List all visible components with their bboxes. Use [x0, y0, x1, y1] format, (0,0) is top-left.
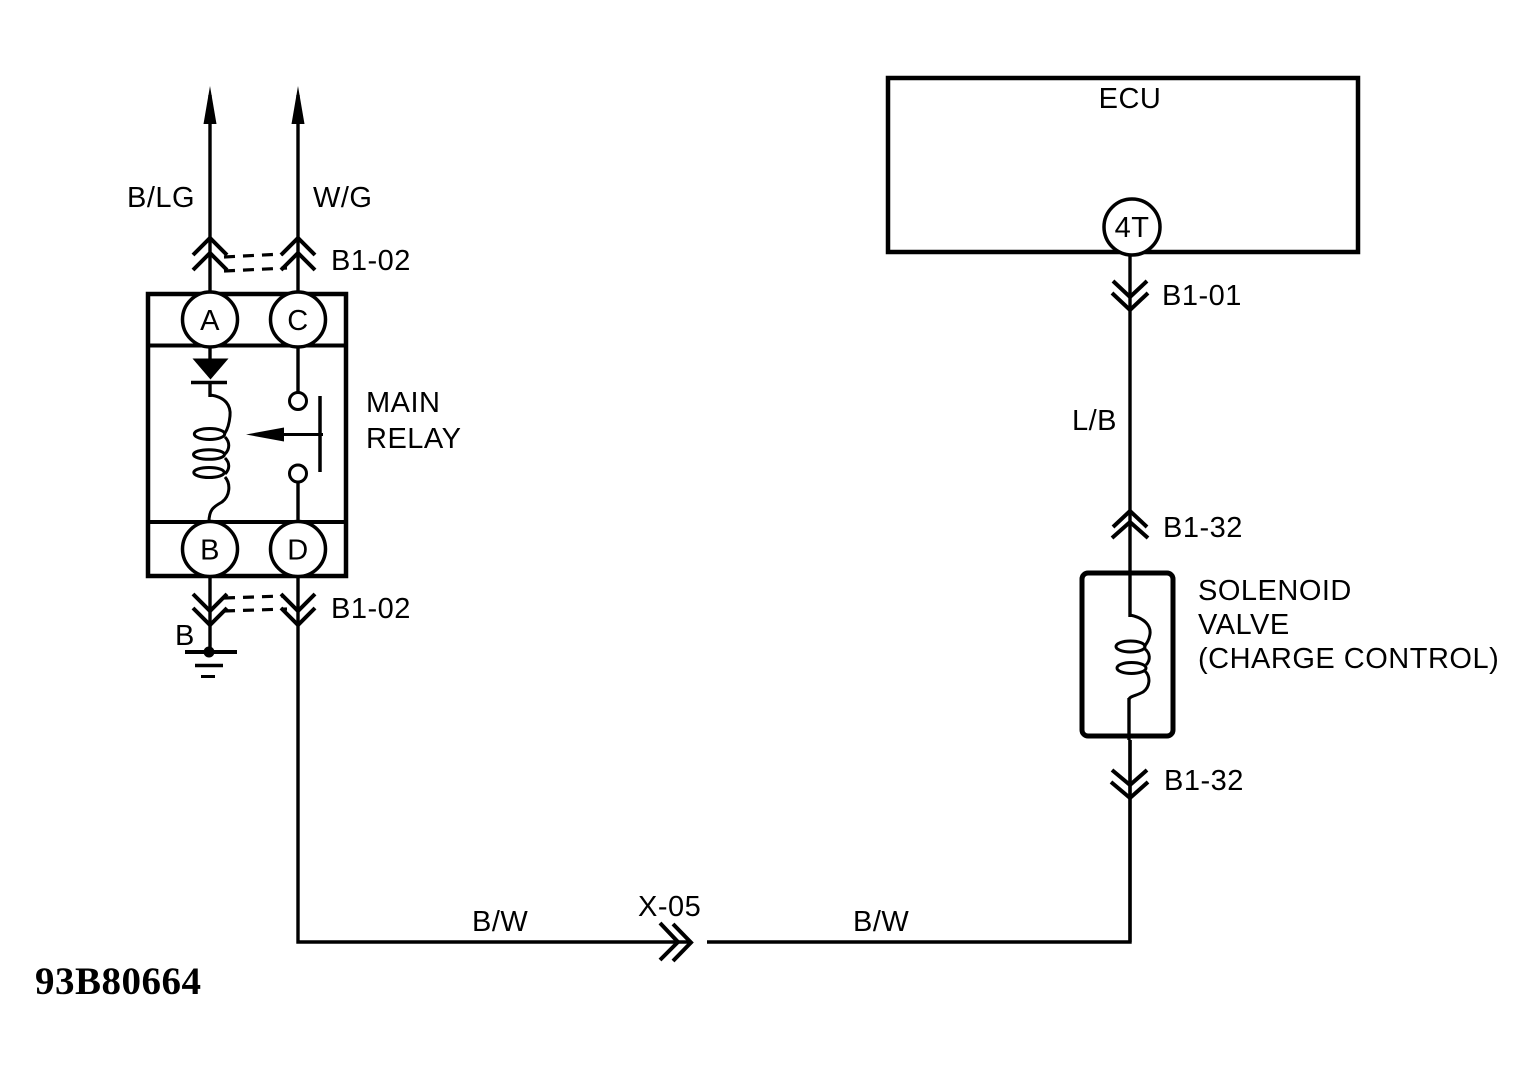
main relay box: [148, 294, 346, 576]
wire B/LG vertical: [208, 95, 211, 294]
svg-text:A: A: [200, 305, 220, 337]
bottom B/W run right segment and riser: [707, 740, 1130, 942]
svg-text:L/B: L/B: [1072, 405, 1117, 437]
relay terminal A: [183, 292, 238, 347]
relay switch contact circle top: [290, 393, 307, 410]
svg-text:B/LG: B/LG: [127, 182, 195, 214]
connector B1-02 top chevrons on W/G wire: [281, 238, 315, 270]
connector B1-01 chevrons: [1112, 281, 1148, 310]
svg-text:B1-32: B1-32: [1164, 765, 1244, 797]
solenoid valve box: [1082, 573, 1173, 736]
connector B1-02 bottom dashed link: [224, 596, 287, 611]
svg-text:B: B: [175, 620, 195, 652]
arrowhead B/LG: [204, 86, 217, 124]
relay switch wire to D: [296, 483, 299, 522]
svg-text:SOLENOID: SOLENOID: [1198, 575, 1352, 607]
svg-text:B1-02: B1-02: [331, 245, 411, 277]
relay terminal strip bottom line: [146, 520, 348, 524]
svg-text:VALVE: VALVE: [1198, 609, 1290, 641]
connector B1-32 lower chevrons: [1111, 770, 1148, 798]
svg-text:93B80664: 93B80664: [35, 960, 202, 1003]
svg-text:D: D: [287, 535, 308, 567]
svg-text:4T: 4T: [1115, 212, 1150, 244]
wire B terminal to ground: [208, 577, 211, 652]
svg-text:X-05: X-05: [638, 891, 701, 923]
connector B1-32 upper chevrons: [1112, 511, 1148, 538]
ground symbol: [204, 647, 215, 658]
connector B1-02 bottom chevrons on B wire: [193, 594, 227, 625]
relay coil L1: [210, 395, 230, 433]
connector B1-02 bottom chevrons on D wire: [281, 594, 315, 625]
svg-text:B/W: B/W: [472, 906, 528, 938]
relay switch wire from C: [296, 347, 299, 393]
relay terminal D: [271, 522, 326, 577]
svg-text:B1-32: B1-32: [1163, 512, 1243, 544]
svg-text:(CHARGE CONTROL): (CHARGE CONTROL): [1198, 643, 1499, 675]
arrowhead W/G: [292, 86, 305, 124]
wire L/B from ECU to solenoid: [1128, 255, 1131, 617]
relay switch contact circle bottom: [290, 465, 307, 482]
svg-text:W/G: W/G: [313, 182, 373, 214]
svg-text:ECU: ECU: [1099, 83, 1162, 115]
svg-text:RELAY: RELAY: [366, 423, 461, 455]
svg-text:B: B: [200, 535, 220, 567]
relay terminal B: [183, 522, 238, 577]
wire solenoid to bottom run: [1128, 740, 1131, 942]
ECU pin 4T circle: [1104, 199, 1160, 255]
relay terminal C: [271, 292, 326, 347]
solenoid coil L2: [1130, 615, 1150, 647]
svg-text:B1-01: B1-01: [1162, 280, 1242, 312]
ECU box: [888, 78, 1358, 252]
diode D1 (relay clamp diode): [208, 347, 211, 360]
relay switch actuating arrow: [280, 433, 323, 436]
relay terminal strip top line: [146, 344, 348, 348]
wire D down and bottom B/W run left segment: [298, 577, 689, 942]
connector X-05 chevrons: [660, 923, 691, 961]
connector B1-02 top dashed link: [224, 254, 287, 271]
svg-text:C: C: [287, 305, 308, 337]
wire W/G vertical: [296, 95, 299, 294]
relay switch bar: [318, 396, 322, 472]
svg-text:MAIN: MAIN: [366, 387, 441, 419]
connector B1-02 top chevrons on B/LG wire: [193, 238, 227, 270]
svg-text:B/W: B/W: [853, 906, 909, 938]
svg-text:B1-02: B1-02: [331, 593, 411, 625]
